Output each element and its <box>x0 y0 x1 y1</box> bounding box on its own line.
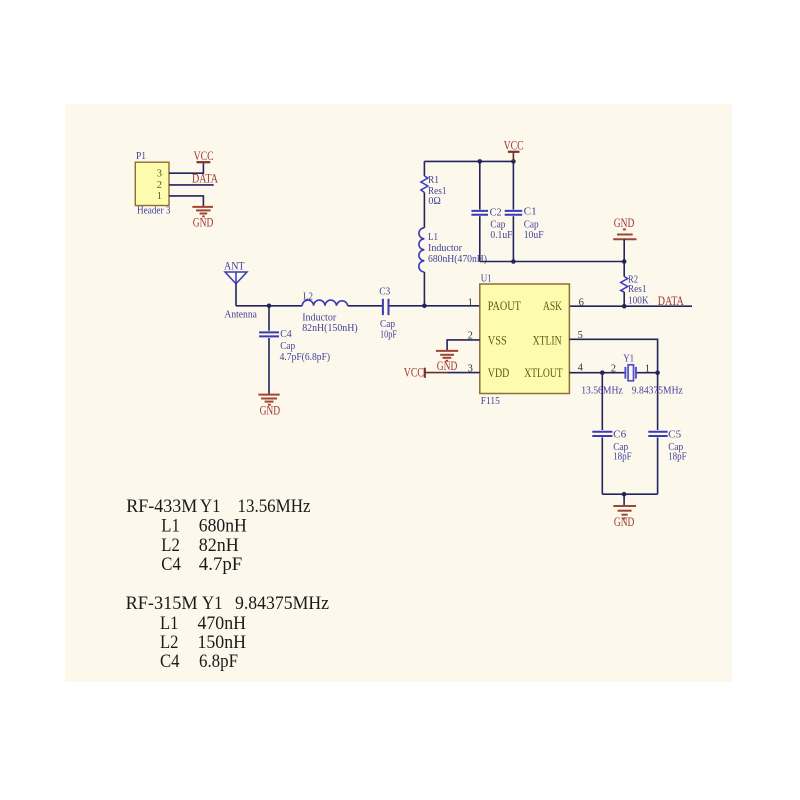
wire U1 pin5 loop <box>569 339 657 372</box>
svg-text:RF-433M: RF-433M <box>126 497 197 517</box>
ground GND bottom <box>613 506 636 529</box>
svg-text:VSS: VSS <box>488 333 507 347</box>
junction at C6 tap <box>600 370 605 375</box>
wire VCC to U1 pin3 <box>448 372 480 374</box>
wire C6 upper <box>601 373 603 430</box>
note table RF-433M <box>126 497 310 575</box>
svg-text:GND: GND <box>260 404 281 418</box>
svg-text:2: 2 <box>157 180 162 191</box>
wire P1 pin3 to VCC <box>169 163 203 173</box>
svg-text:C4: C4 <box>280 328 292 340</box>
svg-text:Antenna: Antenna <box>224 308 257 320</box>
wire C5 upper <box>657 373 659 430</box>
svg-text:L1: L1 <box>161 517 180 537</box>
svg-text:DATA: DATA <box>192 171 218 185</box>
wire R1 to L1 <box>423 193 425 228</box>
capacitor C2 <box>471 207 512 242</box>
note table RF-315M <box>126 594 329 672</box>
svg-text:82nH(150nH): 82nH(150nH) <box>302 322 358 334</box>
capacitor C1 <box>505 206 544 242</box>
wire U1 pin4 to Y1 <box>569 372 625 374</box>
wire antenna down <box>235 284 237 306</box>
ground GND at U1 pin2 <box>436 351 458 373</box>
wire Y1 to pin5 loop <box>636 372 658 374</box>
wire C2 lower <box>479 216 481 261</box>
wire main RF line antenna to L2 <box>236 305 302 307</box>
svg-text:18pF: 18pF <box>613 450 632 462</box>
wire C1 upper <box>512 161 514 209</box>
svg-text:PAOUT: PAOUT <box>488 299 521 313</box>
inductor L1 <box>419 228 487 272</box>
svg-text:10pF: 10pF <box>380 329 397 341</box>
svg-text:C3: C3 <box>379 286 390 298</box>
svg-text:C4: C4 <box>160 652 180 672</box>
op-amp U1 (IC F115) <box>480 272 570 407</box>
svg-text:0Ω: 0Ω <box>428 195 441 207</box>
svg-text:VCC: VCC <box>404 366 424 380</box>
svg-text:GND: GND <box>614 515 635 529</box>
junction at L1 bottom <box>422 304 427 309</box>
antenna ANT <box>224 258 257 320</box>
svg-text:1: 1 <box>157 191 162 202</box>
svg-text:10uF: 10uF <box>524 229 544 241</box>
svg-text:L2: L2 <box>160 633 179 653</box>
ground GND at P1 <box>192 207 213 230</box>
svg-text:VDD: VDD <box>488 366 510 380</box>
svg-text:6: 6 <box>579 297 584 308</box>
svg-text:13.56MHz: 13.56MHz <box>238 497 311 517</box>
wire to bottom GND <box>623 494 625 505</box>
junction at C4 tap <box>267 304 272 309</box>
wire mid rail <box>480 261 624 263</box>
wire P1 pin2 DATA <box>169 184 214 186</box>
wire R2 to DATA line <box>623 292 625 306</box>
junction mid rail at C1 <box>511 259 516 264</box>
svg-text:L2: L2 <box>161 536 180 556</box>
svg-text:2: 2 <box>611 363 616 374</box>
svg-text:1: 1 <box>645 363 650 374</box>
svg-text:Y1: Y1 <box>202 594 223 614</box>
ground GND below C4 <box>258 395 280 418</box>
wire bottom rail <box>602 493 657 495</box>
junction DATA at R2 <box>622 304 627 309</box>
svg-text:ANT: ANT <box>224 258 245 272</box>
svg-text:Header 3: Header 3 <box>137 205 171 217</box>
connector P1 <box>135 150 171 216</box>
svg-text:6.8pF: 6.8pF <box>199 652 238 672</box>
wire U1 pin2 to GND <box>447 340 480 350</box>
svg-text:RF-315M: RF-315M <box>126 594 198 614</box>
svg-text:680nH: 680nH <box>199 517 247 537</box>
svg-text:9.84375MHz: 9.84375MHz <box>235 594 329 614</box>
svg-text:1: 1 <box>468 297 473 308</box>
ground GND right inverted <box>613 216 636 240</box>
svg-text:18pF: 18pF <box>668 450 687 462</box>
inductor L2 <box>302 291 358 335</box>
svg-text:0.1uF: 0.1uF <box>490 229 512 241</box>
svg-text:XTLIN: XTLIN <box>533 333 562 347</box>
svg-text:470nH: 470nH <box>198 614 247 634</box>
power VCC top <box>504 139 524 162</box>
svg-text:C6: C6 <box>613 429 626 441</box>
wire R1 branch top <box>423 161 425 176</box>
capacitor C6 <box>592 429 631 463</box>
resistor R2 <box>621 273 649 306</box>
wire C3 to U1 pin1 <box>389 305 480 307</box>
power VCC at P1 <box>194 149 214 163</box>
junction bottom rail <box>622 492 627 497</box>
svg-text:GND: GND <box>193 216 214 230</box>
capacitor C3 <box>379 286 397 341</box>
svg-text:DATA: DATA <box>658 294 684 308</box>
svg-text:VCC: VCC <box>194 149 214 163</box>
svg-text:C2: C2 <box>490 207 502 219</box>
crystal Y1 <box>623 352 636 381</box>
svg-text:3: 3 <box>157 169 162 180</box>
svg-text:Y1: Y1 <box>623 352 634 364</box>
resistor R1 <box>421 174 447 207</box>
wire C1 lower <box>512 216 514 261</box>
junction at C5 tap <box>655 370 660 375</box>
wire top rail <box>424 160 513 162</box>
svg-text:680nH(470nH): 680nH(470nH) <box>428 253 487 265</box>
svg-text:Res1: Res1 <box>628 283 647 295</box>
wire C6 lower <box>601 437 603 494</box>
svg-text:L2: L2 <box>303 291 313 303</box>
wire C4 tap down <box>268 306 270 331</box>
svg-text:F115: F115 <box>481 395 500 407</box>
wire L2 to C3 <box>348 305 383 307</box>
svg-text:82nH: 82nH <box>199 536 239 556</box>
capacitor C4 <box>259 328 330 363</box>
svg-text:L1: L1 <box>160 614 179 634</box>
junction top rail at C2 <box>478 159 483 164</box>
svg-text:C5: C5 <box>668 429 681 441</box>
svg-text:4.7pF(6.8pF): 4.7pF(6.8pF) <box>280 351 331 363</box>
svg-text:150nH: 150nH <box>198 633 247 653</box>
svg-text:C1: C1 <box>524 206 537 218</box>
junction top rail at C1/VCC <box>511 159 516 164</box>
svg-text:VCC: VCC <box>504 139 524 153</box>
svg-text:100K: 100K <box>628 294 649 306</box>
svg-text:C4: C4 <box>161 555 181 575</box>
junction mid rail at R2 branch <box>622 259 627 264</box>
wire DATA line <box>569 305 692 307</box>
svg-text:GND: GND <box>614 216 635 230</box>
svg-text:4.7pF: 4.7pF <box>199 555 243 575</box>
power VCC at U1 pin3 <box>404 366 448 380</box>
svg-text:P1: P1 <box>136 150 146 162</box>
wire C2 upper <box>479 161 481 209</box>
svg-text:ASK: ASK <box>543 299 562 313</box>
svg-text:GND: GND <box>437 359 458 373</box>
wire C5 lower <box>657 437 659 494</box>
wire C4 to GND <box>268 338 270 394</box>
svg-text:Y1: Y1 <box>200 497 221 517</box>
wire L1 to main line <box>423 272 425 306</box>
svg-text:U1: U1 <box>481 272 492 284</box>
wire P1 pin1 to GND <box>169 196 203 207</box>
svg-text:XTLOUT: XTLOUT <box>524 366 563 380</box>
capacitor C5 <box>648 429 686 463</box>
wire GND to R2 <box>623 239 625 276</box>
